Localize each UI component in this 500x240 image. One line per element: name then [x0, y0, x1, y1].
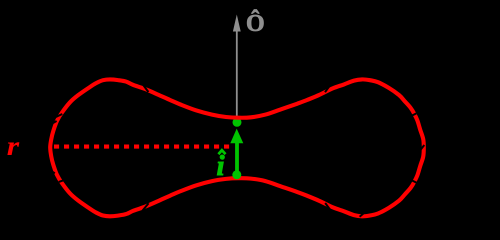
- green arrow shaft: [235, 143, 239, 175]
- svg-text:i: i: [217, 150, 225, 182]
- svg-text:r: r: [7, 132, 20, 161]
- top green dot: [233, 118, 242, 127]
- notch gaps in curve stroke: [50, 84, 425, 217]
- green arrowhead: [230, 129, 243, 144]
- peanut-shaped red curve (nuclear surface): [50, 79, 424, 216]
- dashed red radius line r: [54, 145, 232, 149]
- gray arrowhead: [233, 15, 241, 32]
- bottom green dot: [232, 170, 241, 179]
- gray axis arrow shaft: [236, 29, 238, 119]
- svg-text:Ô: Ô: [246, 10, 265, 37]
